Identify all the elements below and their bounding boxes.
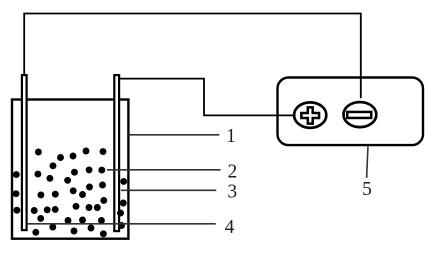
positive terminal of power supply: [294, 102, 326, 128]
svg-text:2: 2: [228, 161, 238, 182]
negative terminal of power supply: [344, 102, 377, 127]
minus symbol: [347, 112, 371, 118]
svg-text:1: 1: [226, 126, 236, 147]
label 2 leader: [107, 169, 221, 171]
wire from electrode 1 to negative terminal: [24, 14, 361, 99]
power supply 5 (battery box): [278, 78, 424, 146]
svg-text:3: 3: [227, 181, 237, 202]
electrode 1 (left): [22, 75, 27, 230]
svg-text:4: 4: [225, 217, 235, 238]
svg-text:5: 5: [362, 179, 372, 200]
label 3 leader: [121, 189, 216, 191]
solution particles: [13, 148, 128, 238]
label 1 leader: [129, 134, 220, 136]
label 5 leader: [367, 146, 368, 179]
wire from electrode 2 to positive terminal: [118, 79, 294, 116]
beaker: [12, 100, 128, 239]
electrode 2 (right): [114, 75, 119, 231]
plus symbol: [301, 107, 319, 123]
label 4 leader: [27, 223, 216, 225]
